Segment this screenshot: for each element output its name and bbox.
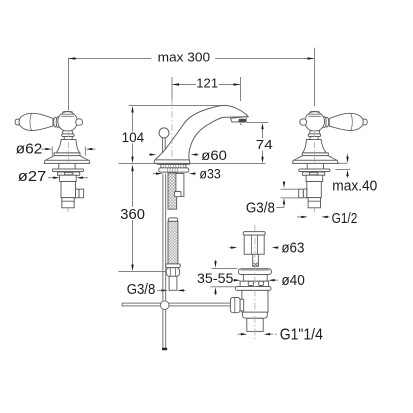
drain flange	[238, 269, 271, 275]
arrow ø33 right (left-pointing)	[189, 172, 196, 174]
arrow 35-55 top (down)	[214, 261, 216, 268]
spout locknut	[159, 168, 189, 172]
right valve bell skirt	[294, 156, 337, 161]
dim 121 left extension (spout centerline top)	[171, 77, 173, 101]
drain flange inner line	[241, 269, 270, 271]
right valve upper body	[306, 175, 323, 181]
arrow max.40 bottom (up)	[346, 170, 348, 177]
dim 35-55 vertical + refs	[215, 260, 217, 264]
left valve outlet elbow	[76, 189, 80, 198]
dim ø40 arrow lines	[233, 279, 236, 281]
left lever tip nub	[15, 119, 21, 125]
dim ø62 witness lines	[51, 146, 53, 155]
lift rod knob	[159, 128, 169, 138]
left boss side nub	[76, 119, 83, 125]
lift rod bottom end cap	[162, 348, 167, 350]
drain nut facet line	[234, 298, 236, 313]
right valve neck below bell	[307, 164, 323, 169]
arrow ø60 right (left-pointing)	[191, 153, 198, 155]
arrow ø63 right (left-pointing)	[272, 246, 279, 248]
svg-text:G3/8: G3/8	[127, 281, 156, 298]
right valve main body	[307, 182, 322, 198]
right valve collar ring A	[308, 134, 320, 137]
dim G1"1/4 arrow lines	[238, 333, 243, 335]
rod pivot ball	[160, 301, 169, 310]
knurl ticks on spout washer	[163, 164, 183, 167]
dim 360 bottom reference line	[118, 271, 165, 273]
svg-text:121: 121	[196, 76, 218, 91]
drain guide right	[259, 281, 264, 285]
arrow ø62 left (right-pointing)	[45, 148, 52, 150]
left valve neck	[62, 131, 72, 134]
left valve centerline	[68, 131, 70, 163]
svg-text:360: 360	[120, 207, 145, 223]
dim 104 vertical line	[132, 108, 134, 132]
drain rod nut	[230, 298, 240, 313]
drain collar	[240, 281, 269, 286]
svg-text:G1"1/4: G1"1/4	[280, 327, 324, 344]
drain body	[242, 290, 268, 312]
right valve castellated locknut	[317, 172, 325, 175]
spout base dish	[154, 160, 190, 164]
svg-text:max.40: max.40	[332, 177, 377, 194]
spout centerline	[171, 98, 173, 163]
left valve lower body joint	[62, 200, 74, 202]
left valve upper body	[60, 175, 77, 181]
dim max300 right extension / right valve centerline	[314, 48, 316, 107]
drain plug body	[244, 235, 264, 254]
arrow ø27 left (right-pointing)	[53, 177, 60, 179]
dim G3/8 left leader	[157, 289, 161, 291]
arrow G3/8 right upper (down)	[283, 182, 285, 188]
svg-text:max 300: max 300	[158, 50, 211, 65]
svg-text:G1/2: G1/2	[332, 211, 358, 227]
drain throat	[243, 275, 267, 282]
right valve centerline	[314, 131, 316, 163]
left lever inner line	[30, 114, 32, 131]
right lever collar rings	[325, 117, 328, 127]
arrow G3/8 left b (left-pointing)	[177, 289, 184, 291]
hose nut body	[166, 268, 179, 277]
svg-text:35-55: 35-55	[197, 270, 234, 286]
right valve lower body	[308, 198, 320, 208]
svg-text:G3/8: G3/8	[246, 200, 275, 216]
dim 121 line	[173, 84, 197, 86]
right lever handle	[329, 113, 363, 130]
left valve tick below	[67, 209, 69, 212]
svg-text:ø33: ø33	[199, 166, 220, 181]
drain rod connector	[240, 299, 244, 311]
arrow 121 left	[172, 83, 179, 85]
dim ø63 arrow lines	[229, 247, 233, 249]
arrow ø63 left (right-pointing)	[231, 246, 238, 248]
hose nut facet lines	[170, 268, 175, 276]
arrow G1"1/4 left (right-pointing)	[241, 333, 248, 335]
left valve bell skirt	[46, 156, 89, 161]
lift rod knob stem	[163, 138, 166, 153]
spout aerator tip	[231, 117, 247, 122]
right valve outlet cap G3/8	[299, 189, 304, 198]
svg-text:ø27: ø27	[18, 168, 47, 185]
arrow G1"1/4 right (left-pointing)	[264, 333, 271, 335]
dim 360 vertical line	[132, 167, 134, 207]
dim 104 top reference line	[129, 105, 228, 107]
right boss cap grooves	[308, 111, 322, 116]
knurl ticks on spout locknut	[168, 168, 178, 171]
dim 74 vertical line	[262, 125, 264, 139]
hose connector tube G3/8	[169, 276, 177, 290]
drain bottom cup	[243, 312, 268, 318]
left valve washer	[52, 169, 83, 172]
right valve boss	[305, 112, 325, 132]
arrow 104 bottom (down at deck)	[131, 157, 133, 164]
svg-text:ø60: ø60	[201, 147, 227, 163]
horizontal rod	[122, 303, 231, 306]
right lever tip nub	[361, 119, 367, 125]
right valve bell bottom band	[293, 160, 338, 163]
arrow 121 right	[234, 83, 241, 85]
dim G1/2 arrow lines	[297, 216, 303, 218]
right valve neck	[310, 131, 320, 134]
arrow ø40 right (left-pointing)	[268, 279, 275, 281]
arrow ø27 right (left-pointing)	[76, 177, 83, 179]
right valve collar ring B	[310, 137, 318, 140]
spout knurled washer	[161, 164, 186, 168]
dim max300 line	[69, 58, 151, 60]
dim ø60 arrow lines	[149, 154, 151, 156]
deck line	[118, 163, 265, 165]
left valve lower body	[62, 198, 74, 208]
svg-text:ø62: ø62	[16, 142, 43, 158]
arrow G3/8 left a (right-pointing)	[161, 289, 168, 291]
pop-up lift rod below deck	[163, 174, 166, 349]
dim G3/8 right leader	[277, 207, 285, 209]
drain deck washer	[235, 287, 271, 291]
drain plug stem	[253, 254, 259, 266]
dim ø62 arrow lines	[41, 148, 45, 150]
arrow 360 top (up below deck)	[131, 164, 133, 171]
svg-text:74: 74	[256, 137, 273, 152]
left valve outlet cap G1/2	[79, 189, 84, 198]
arrow max.40 top (down)	[346, 157, 348, 164]
arrow 104 top (up)	[131, 106, 133, 113]
svg-text:104: 104	[122, 130, 145, 145]
right lever inner line	[351, 114, 353, 131]
drain guide left	[248, 281, 253, 285]
right valve washer	[299, 169, 330, 172]
right valve tick below	[313, 209, 315, 212]
left lever collar rings	[54, 117, 57, 127]
spout body	[155, 105, 248, 160]
drain plug inner lines	[235, 235, 270, 312]
spout base bottom rim	[157, 164, 190, 166]
left valve boss	[58, 112, 78, 132]
left valve bell dome	[56, 140, 79, 153]
arrow G1/2 left (right-pointing)	[301, 216, 308, 218]
right boss side nub	[300, 119, 307, 125]
spout rod guide	[176, 174, 184, 197]
dim max300 left extension / left valve centerline	[68, 58, 70, 111]
flexible hose	[168, 221, 178, 264]
left valve collar ring A	[62, 134, 74, 137]
spout rod guide cap	[175, 192, 182, 197]
arrow G3/8 right lower (up)	[283, 198, 285, 204]
drain plug cap	[243, 232, 265, 236]
svg-text:ø63: ø63	[281, 239, 304, 256]
arrow ø33 left (right-pointing)	[156, 172, 163, 174]
arrow 360 bottom (down)	[131, 265, 133, 272]
hose nut collar	[166, 264, 181, 268]
dim 74 top reference line	[246, 122, 268, 124]
dim ø33 arrow lines	[153, 173, 158, 175]
left lever handle	[19, 113, 53, 130]
left valve castellated locknut	[58, 172, 66, 175]
left valve collar ring B	[64, 137, 72, 140]
left valve bell step	[54, 153, 80, 156]
spout threaded shank	[168, 173, 177, 209]
left valve neck below bell	[59, 164, 75, 169]
arrow ø40 left (right-pointing)	[234, 279, 241, 281]
left boss cap grooves	[61, 111, 75, 116]
right valve lower body joint	[308, 200, 320, 202]
left valve main body	[61, 182, 76, 198]
arrow ø60 left (right-pointing)	[150, 153, 157, 155]
arrow G1/2 right (left-pointing)	[321, 216, 328, 218]
drain tailpiece G1"1/4	[247, 318, 263, 331]
dim 121 right extension	[240, 77, 242, 101]
arrow 35-55 bottom (up)	[214, 287, 216, 294]
drain stem X detail	[253, 262, 259, 266]
dim G3/8 right reference lines	[281, 188, 299, 190]
flexible hose top cap	[168, 218, 177, 222]
svg-text:ø40: ø40	[281, 272, 304, 289]
dim max.40 vertical + refs	[347, 154, 349, 159]
right valve bell step	[302, 153, 328, 156]
left valve bell bottom band	[44, 160, 89, 163]
arrow ø62 right (left-pointing)	[86, 148, 93, 150]
drain centerline	[254, 225, 256, 341]
arrow max300 left	[69, 57, 76, 59]
aerator small tick	[240, 123, 242, 125]
dim ø27 arrow lines	[48, 177, 55, 179]
right valve bell dome	[303, 140, 326, 153]
arrow 74 top (up)	[261, 123, 263, 130]
arrow 74 bottom (down)	[261, 157, 263, 164]
arrow max300 right	[308, 57, 315, 59]
right valve outlet elbow	[303, 189, 307, 198]
aerator dark insert	[239, 119, 246, 123]
